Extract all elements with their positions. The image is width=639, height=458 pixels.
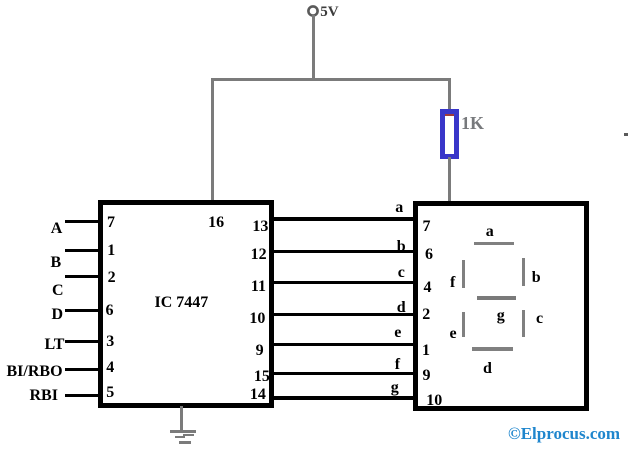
seven segment display body (413, 201, 588, 411)
pin 14 number (250, 387, 266, 403)
wire input RBI stub (65, 394, 103, 397)
wire power rail down to resistor (448, 78, 451, 111)
wire input A stub (65, 220, 103, 223)
segment c bar (522, 310, 525, 337)
segment g label (497, 308, 505, 324)
label g (391, 380, 399, 396)
segment a bar (474, 242, 514, 245)
display pin 9 number (423, 368, 431, 384)
wire output e pin 9 to display pin 1 (269, 343, 418, 347)
display pin 2 number (422, 307, 430, 323)
segment c label (536, 311, 543, 327)
label LT (45, 337, 65, 353)
display pin 6 number (425, 247, 433, 263)
wire output g pin 14 to display pin 10 (269, 396, 418, 400)
segment f bar (462, 260, 465, 288)
segment f label (450, 275, 455, 291)
label b (397, 239, 406, 255)
pin 10 number (249, 311, 265, 327)
pin 12 number (251, 247, 267, 263)
wire input LT stub (65, 340, 103, 343)
label RBI (30, 388, 58, 404)
ground wire from IC bottom (180, 406, 183, 432)
wire output d pin 10 to display pin 2 (269, 313, 418, 317)
ground bar 2 left (175, 436, 185, 438)
power terminal 5V (306, 4, 321, 19)
pin 6 number (106, 303, 114, 319)
wire output a pin 13 to display pin 7 (269, 217, 418, 221)
wire output c pin 11 to display pin 4 (269, 281, 418, 285)
label a (395, 200, 403, 216)
segment e label (450, 326, 457, 342)
pin 2 number (108, 270, 116, 286)
segment b bar (522, 258, 525, 286)
pin 15 number (254, 369, 270, 385)
display pin 1 number (422, 343, 430, 359)
wire horizontal power rail (211, 78, 451, 81)
label d (397, 300, 406, 316)
label 5V (320, 5, 338, 20)
segment d bar (472, 347, 513, 351)
pin 9 number (256, 343, 264, 359)
pin 5 number (106, 385, 114, 401)
label B (51, 255, 62, 271)
segment b label (532, 270, 541, 286)
label IC 7447 (155, 295, 209, 311)
display pin 4 number (424, 280, 432, 296)
display pin 7 number (423, 219, 431, 235)
wire output b pin 12 to display pin 6 (269, 250, 418, 254)
pin 11 number (251, 279, 266, 295)
watermark Elprocus.com (508, 425, 620, 442)
stray mark (624, 133, 628, 136)
pin 4 number (106, 360, 114, 376)
label 1K (461, 114, 484, 132)
resistor red tick mark (445, 114, 454, 116)
pin 3 number (106, 334, 114, 350)
label D (52, 307, 64, 323)
label c (398, 265, 405, 281)
ground bar 3 (179, 441, 191, 444)
wire resistor to display top (448, 157, 451, 202)
wire input B stub (65, 249, 103, 252)
segment a label (486, 224, 494, 240)
label BI/RBO (7, 364, 63, 380)
label C (52, 283, 64, 299)
wire output f pin 15 to display pin 9 (269, 372, 418, 376)
ground bar 2 right (183, 434, 194, 436)
segment g bar (477, 296, 516, 301)
resistor R1 1K body (440, 109, 459, 159)
wire input C stub (65, 275, 103, 278)
ground bar 1 (170, 430, 197, 433)
label f (395, 357, 400, 373)
segment d label (483, 361, 492, 377)
wire input D stub (65, 309, 103, 312)
pin 7 number (107, 215, 115, 231)
display pin 10 number (426, 393, 442, 409)
label A (51, 221, 63, 237)
label e (394, 325, 401, 341)
IC U1 body IC 7447 (98, 200, 274, 408)
pin 16 number (208, 215, 224, 231)
wire 5V terminal down to power rail (312, 15, 315, 80)
wire input BI/RBO stub (65, 368, 103, 371)
pin 1 number (107, 243, 115, 259)
wire power rail down to IC pin 16 (211, 78, 214, 202)
segment e bar (462, 312, 465, 337)
pin 13 number (252, 219, 268, 235)
